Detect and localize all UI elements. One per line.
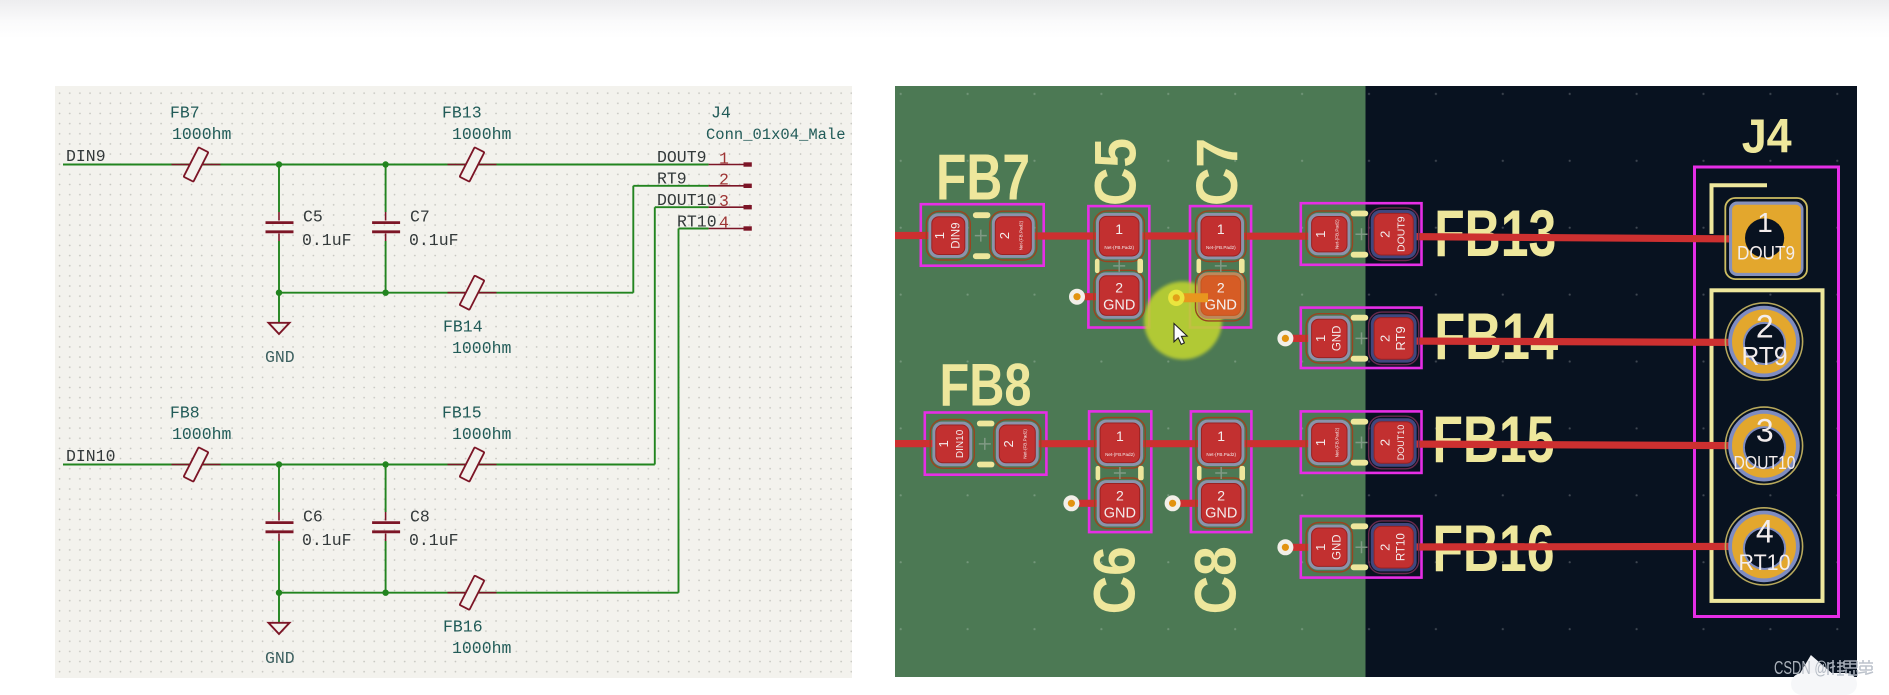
svg-text:1: 1	[1217, 428, 1225, 444]
svg-text:GND: GND	[1331, 534, 1343, 560]
svg-text:Net-(FB.Pad2): Net-(FB.Pad2)	[1019, 220, 1024, 250]
svg-text:1: 1	[1313, 231, 1328, 238]
svg-text:1: 1	[936, 440, 951, 447]
svg-text:FB7: FB7	[936, 140, 1030, 213]
svg-text:2: 2	[997, 232, 1012, 239]
svg-text:1000hm: 1000hm	[452, 639, 512, 658]
svg-text:GND: GND	[1205, 505, 1237, 521]
svg-text:0.1uF: 0.1uF	[302, 231, 352, 250]
svg-text:FB15: FB15	[442, 404, 482, 423]
svg-text:2: 2	[1217, 487, 1225, 503]
svg-text:1000hm: 1000hm	[452, 425, 512, 444]
svg-text:1000hm: 1000hm	[452, 125, 512, 144]
svg-text:0.1uF: 0.1uF	[409, 531, 459, 550]
svg-text:C7: C7	[1185, 138, 1250, 206]
svg-text:J4: J4	[711, 104, 731, 123]
svg-text:FB16: FB16	[443, 618, 483, 637]
svg-text:0.1uF: 0.1uF	[409, 231, 459, 250]
svg-text:Net-(FB.Pad2): Net-(FB.Pad2)	[1105, 452, 1135, 457]
svg-text:2: 2	[1217, 280, 1225, 296]
svg-text:2: 2	[1378, 544, 1393, 551]
svg-text:DOUT10: DOUT10	[657, 191, 716, 210]
svg-text:C8: C8	[1184, 546, 1249, 614]
svg-text:4: 4	[1756, 513, 1774, 549]
svg-text:FB7: FB7	[170, 104, 200, 123]
svg-text:C5: C5	[1084, 138, 1149, 206]
svg-text:Net-(FB.Pad2): Net-(FB.Pad2)	[1335, 219, 1340, 249]
svg-text:0.1uF: 0.1uF	[302, 531, 352, 550]
svg-text:Conn_01x04_Male: Conn_01x04_Male	[706, 126, 846, 144]
svg-text:FB14: FB14	[443, 318, 483, 337]
svg-text:FB8: FB8	[170, 404, 200, 423]
svg-text:2: 2	[719, 171, 729, 190]
svg-text:RT9: RT9	[1393, 326, 1408, 350]
svg-text:1: 1	[1757, 207, 1773, 238]
svg-text:C7: C7	[410, 208, 430, 227]
svg-text:J4: J4	[1742, 110, 1792, 164]
svg-text:1: 1	[1115, 221, 1123, 237]
svg-text:FB13: FB13	[1434, 196, 1556, 270]
svg-text:Net-(FB.Pad2): Net-(FB.Pad2)	[1104, 245, 1134, 250]
svg-text:1000hm: 1000hm	[172, 425, 232, 444]
svg-text:2: 2	[1116, 487, 1124, 503]
svg-text:GND: GND	[1104, 505, 1136, 521]
svg-text:2: 2	[1001, 440, 1016, 447]
svg-text:1: 1	[719, 150, 729, 169]
svg-text:Net-(FB.Pad2): Net-(FB.Pad2)	[1206, 245, 1236, 250]
svg-text:C6: C6	[1083, 546, 1148, 614]
svg-text:1: 1	[1313, 335, 1328, 342]
svg-text:Net-(FB.Pad2): Net-(FB.Pad2)	[1023, 429, 1028, 459]
svg-text:2: 2	[1756, 309, 1774, 345]
svg-text:Net-(FB.Pad2): Net-(FB.Pad2)	[1206, 452, 1236, 457]
svg-text:FB13: FB13	[442, 104, 482, 123]
svg-text:1: 1	[1313, 439, 1328, 446]
svg-text:C8: C8	[410, 508, 430, 527]
svg-text:GND: GND	[1331, 326, 1343, 352]
svg-text:DOUT10: DOUT10	[1396, 425, 1406, 461]
svg-text:DIN9: DIN9	[66, 147, 106, 166]
svg-text:1: 1	[1313, 544, 1328, 551]
svg-text:1: 1	[1217, 221, 1225, 237]
svg-text:DOUT9: DOUT9	[657, 148, 707, 167]
svg-text:RT10: RT10	[1396, 533, 1408, 561]
svg-text:3: 3	[1756, 413, 1774, 449]
svg-text:DIN10: DIN10	[955, 429, 966, 458]
svg-text:1000hm: 1000hm	[172, 125, 232, 144]
svg-text:DIN9: DIN9	[950, 222, 962, 248]
svg-text:GND: GND	[1103, 298, 1135, 314]
svg-text:DIN10: DIN10	[66, 447, 116, 466]
svg-text:1: 1	[1116, 428, 1124, 444]
svg-text:DOUT10: DOUT10	[1734, 453, 1796, 473]
svg-text:DOUT9: DOUT9	[1395, 216, 1407, 252]
svg-text:RT10: RT10	[1739, 550, 1791, 575]
svg-text:GND: GND	[265, 348, 295, 367]
svg-text:1000hm: 1000hm	[452, 339, 512, 358]
svg-text:C6: C6	[303, 508, 323, 527]
svg-text:2: 2	[1378, 231, 1393, 238]
svg-text:1: 1	[932, 232, 947, 239]
svg-text:2: 2	[1378, 335, 1393, 342]
svg-text:GND: GND	[1205, 298, 1237, 314]
svg-text:FB14: FB14	[1434, 299, 1558, 373]
svg-text:RT9: RT9	[1742, 341, 1788, 371]
svg-text:GND: GND	[265, 649, 295, 668]
svg-text:2: 2	[1378, 439, 1393, 446]
svg-text:3: 3	[719, 192, 729, 211]
svg-text:C5: C5	[303, 208, 323, 227]
svg-text:FB8: FB8	[940, 351, 1032, 418]
svg-text:RT9: RT9	[657, 170, 687, 189]
svg-text:2: 2	[1115, 280, 1123, 296]
svg-text:FB15: FB15	[1433, 402, 1555, 476]
svg-text:DOUT9: DOUT9	[1737, 244, 1795, 265]
svg-text:Net-(FB.Pad2): Net-(FB.Pad2)	[1335, 427, 1340, 457]
svg-text:RT10: RT10	[677, 213, 717, 232]
svg-text:4: 4	[719, 214, 729, 233]
